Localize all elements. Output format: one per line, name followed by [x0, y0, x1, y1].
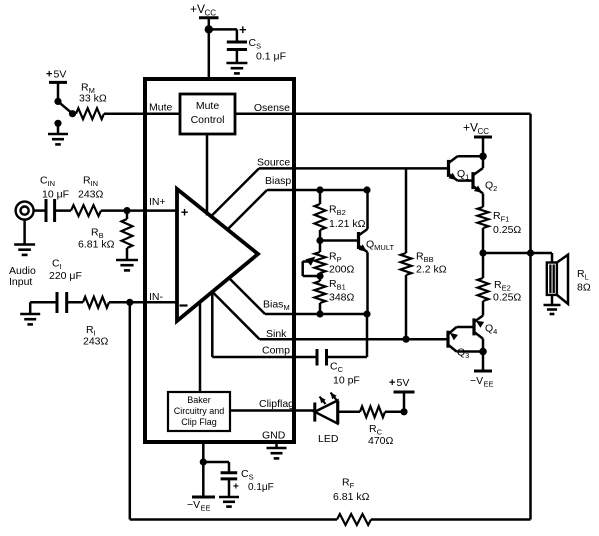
- svg-text:EE: EE: [201, 504, 211, 513]
- svg-text:10 pF: 10 pF: [333, 375, 360, 387]
- svg-text:Clipflag: Clipflag: [259, 398, 294, 410]
- svg-text:Input: Input: [9, 276, 32, 288]
- svg-text:8Ω: 8Ω: [577, 282, 591, 294]
- svg-text:−V: −V: [470, 375, 483, 387]
- svg-text:200Ω: 200Ω: [329, 264, 355, 276]
- svg-text:Source: Source: [257, 157, 290, 169]
- svg-text:GND: GND: [262, 430, 286, 442]
- svg-text:0.1μF: 0.1μF: [248, 482, 274, 493]
- svg-text:Clip Flag: Clip Flag: [181, 417, 217, 427]
- svg-text:1.21 kΩ: 1.21 kΩ: [329, 218, 366, 230]
- svg-text:10 μF: 10 μF: [42, 189, 69, 201]
- svg-text:Comp: Comp: [262, 345, 290, 357]
- svg-text:+: +: [46, 69, 52, 81]
- svg-text:EE: EE: [484, 380, 494, 389]
- svg-text:33 kΩ: 33 kΩ: [79, 93, 107, 105]
- svg-text:+: +: [239, 22, 247, 37]
- svg-text:6.81 kΩ: 6.81 kΩ: [333, 491, 370, 503]
- svg-text:CC: CC: [205, 9, 217, 18]
- svg-text:Mute: Mute: [196, 100, 220, 112]
- svg-text:+: +: [181, 205, 189, 220]
- svg-text:IN-: IN-: [149, 291, 164, 303]
- svg-text:CC: CC: [478, 127, 490, 136]
- svg-text:Mute: Mute: [149, 102, 173, 114]
- svg-text:−V: −V: [187, 499, 200, 511]
- svg-text:Control: Control: [191, 114, 225, 126]
- svg-text:348Ω: 348Ω: [329, 292, 355, 304]
- svg-text:5V: 5V: [397, 377, 410, 389]
- svg-text:+: +: [389, 377, 395, 389]
- svg-text:+V: +V: [190, 2, 205, 16]
- svg-text:243Ω: 243Ω: [78, 189, 104, 201]
- svg-text:Osense: Osense: [254, 102, 290, 114]
- svg-text:243Ω: 243Ω: [83, 336, 109, 348]
- svg-text:LED: LED: [318, 433, 339, 445]
- svg-text:220 μF: 220 μF: [49, 270, 82, 282]
- svg-text:+: +: [233, 482, 239, 493]
- svg-text:0.1 μF: 0.1 μF: [256, 51, 286, 63]
- svg-text:0.25Ω: 0.25Ω: [493, 292, 521, 304]
- svg-text:2.2 kΩ: 2.2 kΩ: [416, 264, 447, 276]
- svg-text:Circuitry and: Circuitry and: [174, 406, 225, 416]
- svg-text:IN+: IN+: [149, 196, 166, 208]
- svg-text:+V: +V: [463, 121, 478, 135]
- svg-text:Biasp: Biasp: [265, 175, 291, 187]
- svg-text:Baker: Baker: [187, 395, 211, 405]
- svg-text:470Ω: 470Ω: [368, 435, 394, 447]
- svg-text:6.81 kΩ: 6.81 kΩ: [78, 239, 115, 251]
- svg-text:0.25Ω: 0.25Ω: [493, 224, 521, 236]
- svg-text:5V: 5V: [54, 69, 67, 81]
